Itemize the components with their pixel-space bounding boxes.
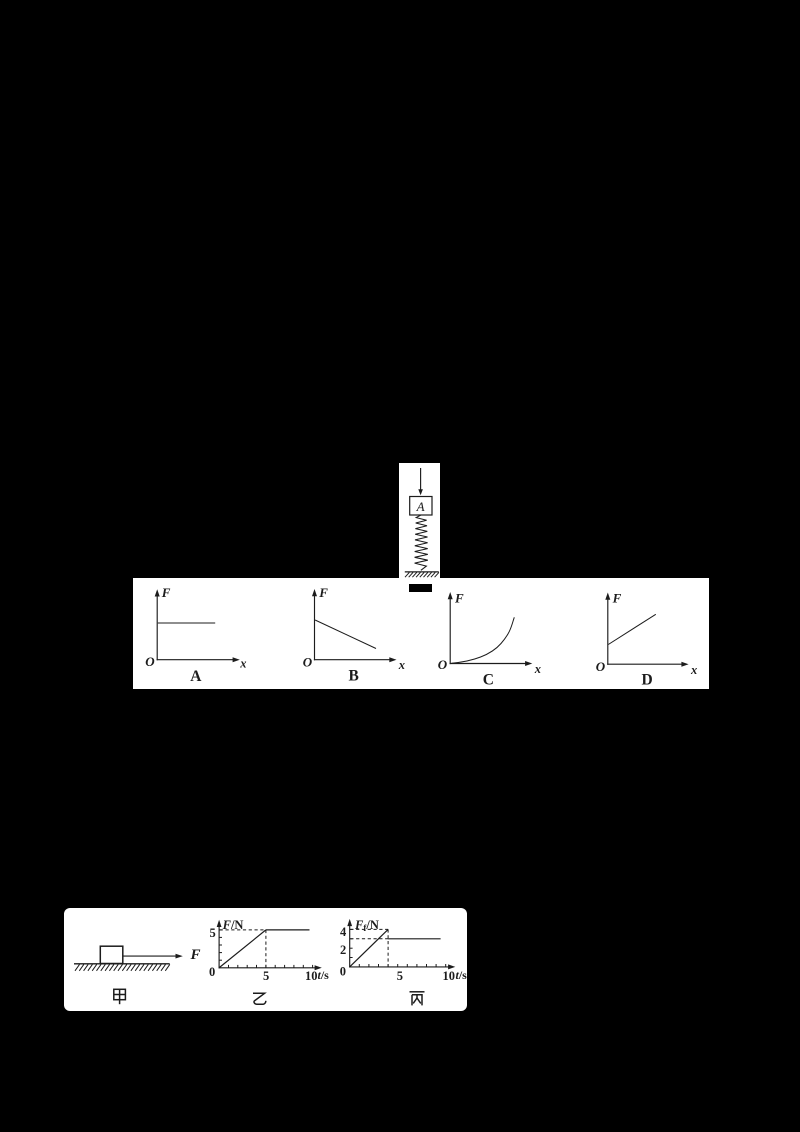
yi dashed level F=5 [220, 929, 266, 931]
svg-text:0: 0 [340, 964, 346, 978]
graph C exponential curve [452, 617, 515, 663]
yi y-axis ticks [219, 930, 222, 960]
svg-text:F: F [161, 585, 171, 600]
svg-text:F: F [454, 590, 464, 605]
graph A constant line [158, 622, 215, 624]
bing caption glyph [410, 992, 425, 1006]
bing y-axis [349, 925, 351, 968]
svg-text:O: O [303, 654, 313, 669]
graph C x-axis [450, 663, 527, 665]
svg-text:x: x [239, 657, 246, 671]
bing x-axis ticks [359, 964, 445, 967]
yi x-axis [219, 967, 316, 969]
svg-text:F/N: F/N [222, 918, 244, 932]
graph D rising line [608, 614, 656, 644]
bing constant line [388, 938, 441, 940]
graph A y-axis [156, 595, 158, 660]
SVG ink layer [405, 468, 439, 577]
svg-text:O: O [145, 654, 155, 669]
jia ground hatching [75, 964, 170, 970]
svg-text:F: F [318, 585, 328, 600]
svg-text:0: 0 [209, 965, 215, 979]
yi caption glyph [253, 993, 266, 1004]
graph A x-axis [157, 659, 234, 661]
svg-text:4: 4 [340, 925, 347, 939]
svg-text:A: A [190, 668, 202, 685]
graph D x-axis [607, 663, 682, 665]
svg-text:5: 5 [397, 969, 403, 983]
black redaction blob under spring [409, 584, 432, 592]
svg-text:Ff/N: Ff/N [354, 918, 379, 933]
svg-text:t/s: t/s [456, 968, 468, 982]
graph D [596, 591, 697, 689]
graph B [303, 585, 405, 684]
graph D y-axis [607, 598, 609, 665]
bing rising line [350, 929, 388, 966]
graph B y-axis [314, 595, 316, 661]
svg-text:2: 2 [340, 943, 346, 957]
svg-text:10: 10 [443, 969, 456, 983]
yi y-axis [218, 926, 220, 969]
jia caption glyph [114, 989, 126, 1004]
svg-text:F: F [190, 947, 201, 963]
graph B x-axis [314, 659, 391, 661]
graph B declining line [315, 620, 376, 649]
bing dashed level F=4 [350, 928, 388, 930]
bing dashed level F=3 [350, 938, 388, 940]
figure jia: block pulled on ground [74, 946, 201, 1004]
svg-text:10: 10 [305, 969, 318, 983]
svg-text:O: O [596, 659, 606, 674]
white patch: bottom figure box [64, 908, 467, 1011]
force arrow above block A [418, 468, 423, 495]
graph C [438, 590, 541, 688]
spring ground line [405, 571, 439, 573]
svg-text:C: C [483, 671, 494, 688]
svg-text:5: 5 [263, 969, 269, 983]
jia force arrow [123, 955, 177, 957]
yi rising line [219, 930, 266, 968]
jia block [100, 946, 123, 963]
bing dashed vertical t=4 [387, 929, 389, 966]
yi x-axis ticks [229, 965, 313, 968]
graph A [145, 585, 246, 685]
svg-text:x: x [398, 658, 405, 672]
graph yi: F/N vs t/s [209, 918, 329, 1004]
svg-text:5: 5 [210, 926, 216, 940]
jia ground line [74, 963, 170, 965]
svg-text:B: B [349, 667, 359, 684]
white patch: graph band A-D [133, 578, 709, 689]
graph bing: Ff/N vs t/s [340, 918, 467, 1006]
svg-text:x: x [690, 663, 697, 677]
spring ground hatching [405, 572, 439, 577]
yi constant line [266, 929, 310, 931]
bing x-axis [349, 966, 449, 968]
svg-text:O: O [438, 657, 448, 672]
white patch: spring figure column [399, 463, 440, 579]
svg-text:F: F [612, 591, 622, 606]
svg-text:t/s: t/s [318, 968, 330, 982]
gray strip under spring ground [400, 579, 439, 584]
spring coil [415, 515, 428, 570]
svg-text:x: x [534, 662, 541, 676]
svg-text:D: D [642, 671, 653, 688]
yi dashed vertical t=5 [265, 930, 267, 967]
bing y-axis ticks [350, 929, 353, 957]
svg-text:A: A [416, 499, 425, 514]
block A box [410, 497, 432, 516]
graph C y-axis [449, 598, 451, 664]
